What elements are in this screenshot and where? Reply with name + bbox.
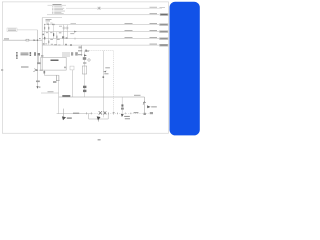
frame tick label (1, 69, 3, 70)
resistor on ladder 1 (44, 27, 45, 30)
ladder vertical 1 (44, 25, 46, 45)
tick on net E (74, 38, 76, 40)
inline connector arrow (34, 39, 37, 41)
wire net C (44, 24, 159, 26)
net D value label 1 (46, 31, 48, 34)
chassis end label (150, 112, 153, 114)
small label right of cluster (41, 55, 43, 56)
control branch vertical (102, 51, 104, 118)
wire down from switch (38, 56, 40, 64)
chassis tick 1 (85, 112, 87, 114)
battery label box (7, 28, 17, 32)
capacitor bank below net F (63, 52, 69, 57)
control branch label lower (104, 73, 108, 74)
wire net B (long signal line) (47, 14, 159, 16)
page border frame (2, 2, 168, 133)
blue side panel (170, 2, 200, 136)
pin number marks (39, 38, 41, 39)
zener D2 (83, 90, 86, 92)
faint text above net C right (71, 22, 77, 25)
chassis T mark (113, 112, 115, 114)
chassis tick 6 (130, 113, 132, 115)
connector arrow on net D (74, 31, 77, 33)
connector arrow label (151, 106, 157, 107)
capacitor C1 (71, 52, 73, 55)
sensor arrow (84, 54, 87, 56)
ground bracket right leg (107, 114, 109, 119)
component on ladder 4 (56, 36, 57, 39)
net D value label 3 (59, 32, 62, 33)
chassis wire label (73, 113, 79, 114)
ground bus label dark (62, 95, 70, 97)
page number mark (98, 139, 101, 140)
switch lower label (37, 62, 40, 64)
chassis dotted line (92, 113, 152, 115)
feed wire end arrow (36, 86, 38, 88)
component on ladder 3 (53, 33, 54, 36)
vertical branch from net C (63, 25, 65, 45)
net B off-page connector box (160, 13, 169, 15)
branch ground arrow (121, 114, 124, 117)
net C mid label (125, 22, 133, 25)
center ground symbol (97, 116, 101, 120)
bus top edge (42, 17, 62, 19)
ground bracket bar (89, 118, 109, 120)
sensor mark (85, 50, 87, 52)
label below net F right (79, 46, 83, 48)
net F value label 2 (51, 43, 53, 46)
zener D1 (83, 86, 86, 88)
net D lower label (70, 32, 74, 35)
chassis tick 3 (108, 112, 110, 114)
label above junction Y (21, 66, 29, 67)
aux box X1 (70, 66, 74, 70)
crossed bond symbol 1 (99, 111, 102, 114)
ground bus corner drop (144, 97, 146, 114)
sensor branch vertical (84, 51, 86, 97)
junction under module (44, 71, 46, 74)
ground bracket left leg (88, 114, 90, 119)
net C off-page connector box (159, 24, 168, 26)
ground bus label right (134, 95, 141, 96)
resistor on ladder 2 (48, 27, 49, 30)
net F label text (150, 43, 158, 46)
capacitor C2 (75, 52, 78, 55)
control branch label upper (105, 67, 110, 68)
diode on net F (65, 44, 67, 46)
feed wire label (4, 38, 9, 39)
net E label text (150, 36, 158, 39)
net D label text (150, 29, 158, 32)
stub wire label (48, 90, 54, 93)
net D value label 2 (50, 31, 52, 34)
junction blob on bus edge (43, 34, 45, 35)
connector row on net C (44, 24, 55, 25)
branch ground label row2 (125, 118, 130, 119)
component legs pair (56, 75, 60, 80)
inline symbol on net A (98, 7, 101, 10)
center ground stem (98, 119, 100, 122)
crossed bond symbol 2 (104, 111, 107, 114)
tick label on feed wire (36, 81, 40, 83)
ladder vertical 4 (56, 32, 58, 45)
net A end text (160, 6, 166, 9)
ground bus wire (59, 96, 145, 98)
branch component upper (121, 104, 123, 106)
main feed horizontal wire (3, 39, 42, 41)
vertical drop right of cluster (81, 45, 83, 56)
net F value label 3 (54, 44, 57, 45)
module top-left label (46, 19, 52, 21)
wire net F (42, 44, 159, 46)
wire module right down (72, 70, 74, 97)
net E mid label (125, 36, 133, 39)
net F value label 1 (45, 42, 47, 45)
module pin label (64, 67, 67, 69)
main feed vertical wire (36, 30, 38, 89)
fuse F1 (26, 39, 29, 41)
dashed enclosure top (89, 50, 114, 52)
pair label (53, 81, 56, 83)
left ground stem (63, 109, 65, 119)
connector J1 labels (21, 53, 29, 56)
component on ladder 2 lower (48, 41, 49, 44)
thermistor symbol (83, 57, 86, 60)
relay K1 bar (30, 52, 32, 54)
switch S1 (34, 52, 36, 56)
control branch connector arrow (103, 71, 106, 73)
left ground symbol (62, 116, 66, 120)
sensor value label (83, 62, 86, 63)
net E value label 1 (50, 39, 53, 40)
label under net C (59, 25, 62, 28)
stub wire y93 (41, 92, 59, 94)
connector arrow right (147, 105, 151, 108)
left ground label (67, 117, 72, 118)
net B label text (150, 12, 158, 15)
indicator circle (88, 59, 90, 61)
net A label text (150, 6, 158, 9)
title block legend rows (52, 7, 65, 14)
title block heading rule (48, 4, 67, 6)
wire net D (42, 31, 159, 33)
branch wire from ground bus (121, 97, 123, 114)
wire down to bus (58, 81, 60, 114)
net C label text (150, 22, 158, 25)
junction node (37, 40, 38, 41)
net C small labels above (46, 22, 53, 25)
wire from battery label (17, 29, 37, 31)
chassis tick 5 (125, 113, 127, 115)
sensor labels left (78, 50, 82, 55)
sensor label right (87, 50, 89, 51)
net F value label 4 (58, 45, 60, 46)
chassis solid left wire (57, 113, 92, 115)
Y junction connector arrows (33, 69, 37, 72)
switch S1 marks (38, 53, 40, 56)
connector J1 pin stack (16, 52, 18, 59)
title block heading text (53, 3, 62, 6)
net D off-page connector box (159, 31, 168, 33)
chassis tick 4 (116, 113, 118, 115)
relay K2 box (82, 66, 86, 74)
bus entry vertical line (41, 18, 43, 71)
Y junction side label (40, 70, 43, 71)
net E value label 2 (57, 39, 60, 40)
diode 2 on net F (70, 44, 72, 46)
module M1 title (51, 60, 59, 62)
net F off-page connector box (159, 44, 168, 46)
net E off-page connector box (159, 38, 168, 40)
branch ground label row1 (124, 116, 130, 117)
net F label left (43, 43, 45, 44)
wire net A (top signal line) (66, 7, 162, 9)
Y junction arrowhead (36, 69, 38, 71)
switch S2 on drop (143, 101, 146, 105)
feed end label (39, 87, 41, 88)
vertical branch 2 from net C (66, 25, 68, 39)
branch component lower (121, 108, 124, 110)
chassis end marks (144, 113, 146, 115)
component on ladder 1 lower (44, 37, 45, 40)
wire net E (42, 38, 159, 40)
ladder vertical 2 (48, 25, 50, 45)
module M1 box (41, 57, 66, 70)
chassis tick 2 (90, 112, 92, 114)
dashed enclosure side (112, 51, 114, 114)
relay coil circles below net C (63, 27, 68, 29)
wire module down (44, 70, 59, 75)
net D mid label (125, 29, 133, 32)
chassis label mid (134, 112, 139, 113)
transistor Q1 marks (66, 37, 68, 39)
transistor Q1 (62, 36, 64, 38)
control branch junction (103, 76, 105, 78)
ladder vertical 3 (53, 25, 55, 39)
